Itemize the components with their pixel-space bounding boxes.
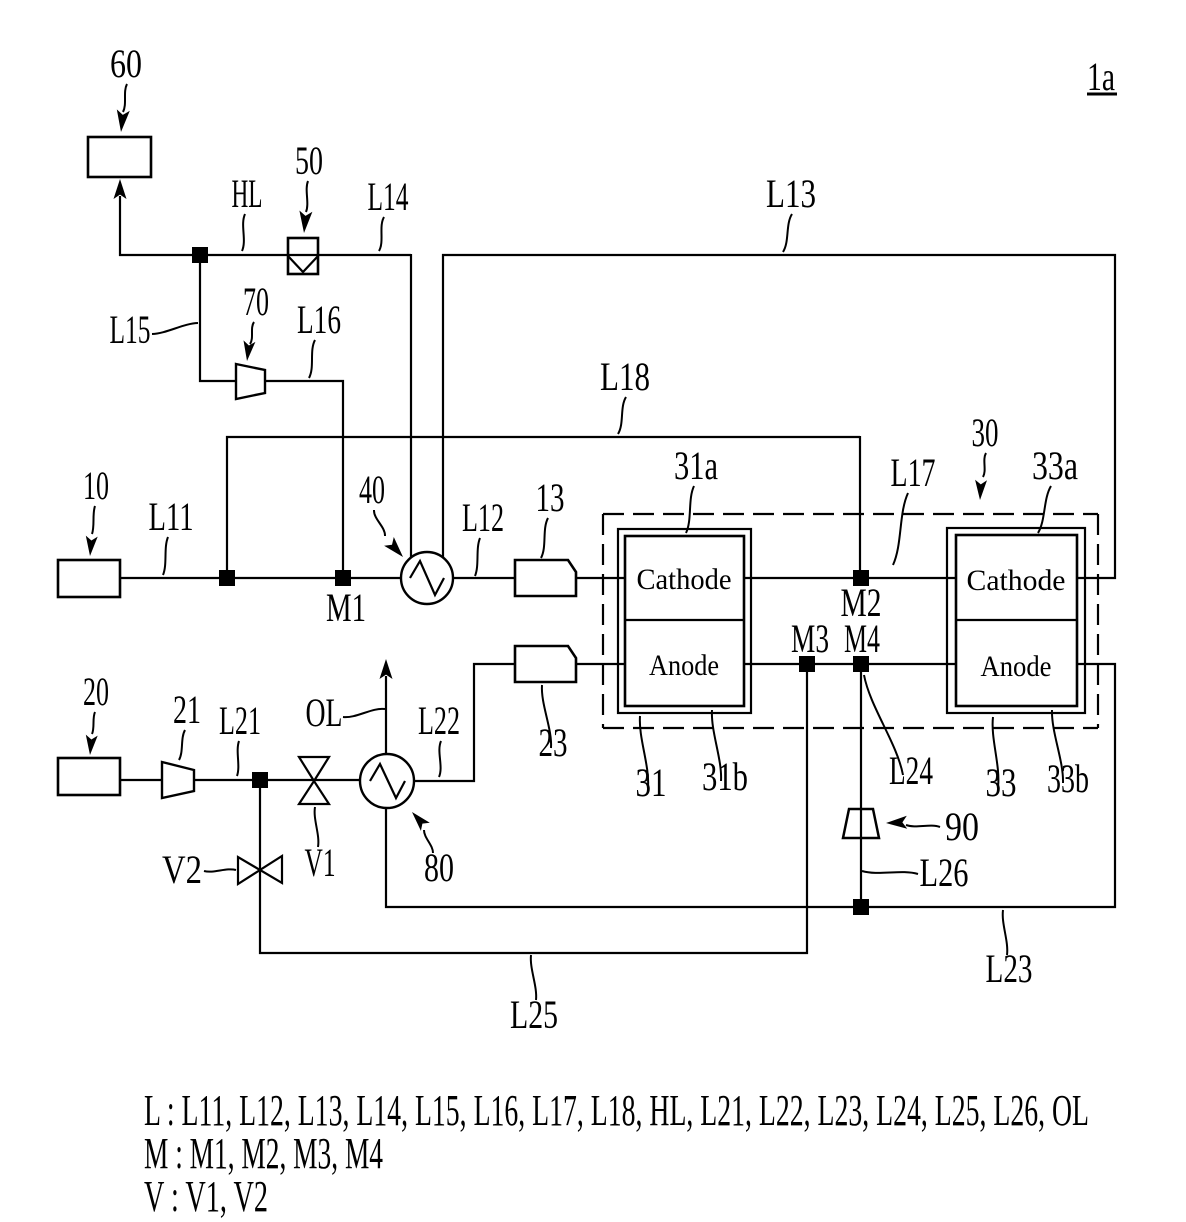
svg-text:L21: L21 [219, 698, 261, 743]
svg-text:L22: L22 [418, 698, 460, 743]
svg-text:90: 90 [945, 804, 979, 849]
svg-text:Cathode: Cathode [637, 563, 732, 596]
svg-text:33b: 33b [1047, 756, 1089, 801]
valve V1 [299, 757, 329, 781]
svg-text:40: 40 [359, 467, 385, 512]
blower 70 [236, 364, 265, 399]
wire L13 path [443, 255, 1115, 578]
svg-text:V : V1, V2: V : V1, V2 [144, 1172, 268, 1221]
box 60 (exhaust) [88, 137, 151, 177]
svg-text:L17: L17 [891, 450, 936, 495]
node junction L26/L23 [853, 899, 869, 915]
svg-text:L14: L14 [368, 174, 409, 219]
fuel cell stack 31 outer [618, 529, 751, 713]
svg-text:60: 60 [110, 41, 142, 86]
wire L22 path [403, 664, 515, 781]
svg-text:V2: V2 [162, 847, 202, 892]
stack 31 divider [625, 619, 744, 621]
svg-text:M4: M4 [844, 616, 880, 661]
wire HL horizontal [119, 254, 411, 256]
wire L11 left [120, 577, 410, 579]
box 23 (humidifier) [515, 646, 576, 682]
wire L15 [200, 262, 237, 381]
svg-text:31: 31 [636, 760, 667, 805]
wire L21 to HX80 [194, 779, 371, 781]
wire anode out to L23 [386, 664, 1115, 907]
stack 33 divider [956, 619, 1077, 621]
svg-text:OL: OL [306, 690, 343, 735]
wire OL with up arrow [385, 676, 387, 756]
svg-text:31a: 31a [674, 443, 718, 488]
svg-text:L23: L23 [986, 946, 1033, 991]
svg-text:M1: M1 [326, 585, 366, 630]
node M3 [799, 656, 815, 672]
svg-text:L13: L13 [766, 171, 816, 216]
wire L16 [264, 381, 343, 578]
svg-text:L11: L11 [149, 494, 194, 539]
svg-text:23: 23 [539, 720, 568, 765]
dashed enclosure 30 bottom [603, 727, 1098, 729]
wire L14 vertical [410, 254, 412, 559]
svg-text:50: 50 [295, 138, 323, 183]
svg-text:Cathode: Cathode [967, 564, 1066, 597]
svg-text:L18: L18 [600, 354, 650, 399]
svg-text:1a: 1a [1087, 54, 1115, 99]
wire L12 into stack 31 [576, 577, 626, 579]
svg-text:L24: L24 [889, 748, 933, 793]
wire L18 [227, 437, 860, 571]
svg-text:HL: HL [232, 171, 263, 216]
node M2 [853, 570, 869, 586]
blower 21 [162, 762, 194, 798]
wire L17 vertical [859, 436, 861, 578]
valve V2 [238, 857, 260, 884]
svg-text:L26: L26 [920, 850, 969, 895]
svg-text:L15: L15 [110, 307, 151, 352]
node M4 [853, 656, 869, 672]
wire V2 branch / L25 [260, 664, 807, 953]
fuel cell stack 33 outer [947, 528, 1085, 713]
heat exchanger 40 [401, 552, 453, 604]
box 10 (air supply) [58, 560, 120, 597]
svg-text:21: 21 [173, 687, 201, 732]
node junction L21/V2 [252, 772, 268, 788]
svg-text:30: 30 [972, 410, 999, 455]
svg-text:10: 10 [83, 463, 109, 508]
wire cathode link 31-33 [744, 577, 957, 579]
node junction HL/L15 [192, 247, 208, 263]
svg-text:33: 33 [986, 760, 1017, 805]
dashed enclosure 30 right [1097, 514, 1099, 728]
svg-text:Anode: Anode [981, 650, 1052, 683]
svg-text:31b: 31b [702, 754, 748, 799]
svg-text:70: 70 [243, 279, 269, 324]
svg-text:13: 13 [536, 475, 565, 520]
wire anode link 31-33 [744, 663, 957, 665]
svg-text:33a: 33a [1032, 443, 1078, 488]
wire exhaust line into 60 (HL outlet) with up arrow [119, 196, 121, 256]
wire L12 segment [444, 577, 515, 579]
svg-text:V1: V1 [305, 840, 336, 885]
dashed enclosure 30 top [603, 513, 1098, 515]
valve 50 [288, 238, 318, 274]
dashed enclosure 30 left [602, 514, 604, 728]
svg-text:L16: L16 [297, 297, 341, 342]
svg-text:Anode: Anode [649, 649, 719, 682]
box 13 (humidifier) [515, 560, 576, 596]
wire L21 from 20 [119, 779, 162, 781]
wire L22 into stack 31 anode [576, 663, 626, 665]
wire L24/L26 vertical [860, 664, 862, 907]
svg-text:M3: M3 [791, 616, 829, 661]
svg-text:L12: L12 [462, 495, 504, 540]
fuel cell stack 31 inner [625, 536, 744, 706]
svg-text:80: 80 [424, 845, 454, 890]
water trap 90 [843, 809, 879, 838]
heat exchanger 80 [360, 754, 414, 808]
fuel cell stack 33 inner [956, 535, 1077, 706]
svg-text:L25: L25 [510, 992, 558, 1037]
node M1 [335, 570, 351, 586]
svg-text:M : M1, M2, M3, M4: M : M1, M2, M3, M4 [144, 1129, 383, 1178]
box 20 (fuel supply) [58, 758, 120, 795]
node junction L11/L18 [219, 570, 235, 586]
svg-text:20: 20 [83, 669, 109, 714]
svg-text:L : L11, L12, L13, L14, L15, L: L : L11, L12, L13, L14, L15, L16, L17, L… [144, 1086, 1089, 1135]
